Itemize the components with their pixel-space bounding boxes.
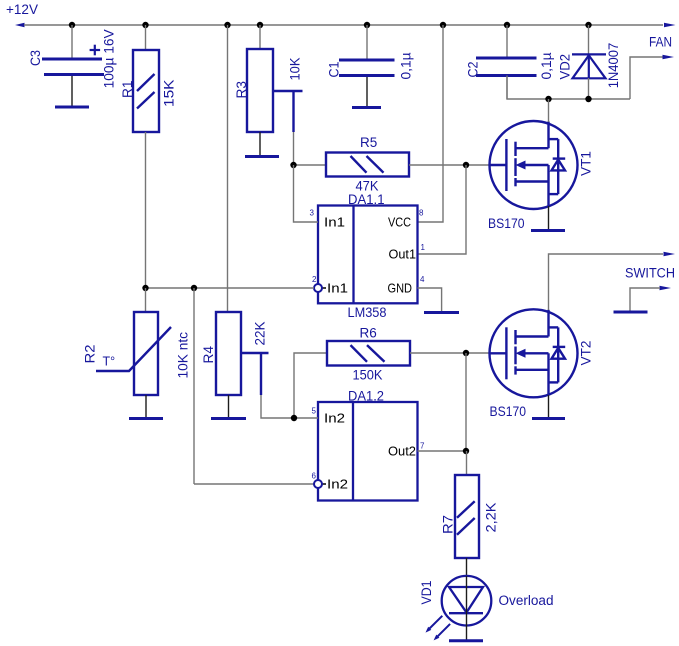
ground SWITCH bbox=[614, 311, 648, 314]
wire R4 feed from rail bbox=[227, 25, 229, 312]
svg-text:15K: 15K bbox=[162, 80, 177, 108]
diode VD2 1N4007 bbox=[572, 54, 606, 78]
node gate VT2 bbox=[463, 350, 469, 356]
ground C1 bbox=[352, 106, 381, 109]
wire C1 top lead bbox=[366, 25, 368, 59]
svg-text:100µ 16V: 100µ 16V bbox=[102, 29, 117, 88]
wire R4 tap to pin5 node bbox=[261, 395, 294, 418]
wire VT1 drain lead bbox=[548, 99, 550, 122]
svg-text:5: 5 bbox=[312, 407, 317, 416]
node pin5 bbox=[291, 415, 297, 421]
capacitor C1 0,1µ bbox=[339, 60, 395, 76]
VT1 arrow bbox=[516, 161, 526, 170]
node rail-VD2 bbox=[585, 22, 591, 28]
svg-text:In1: In1 bbox=[324, 216, 345, 230]
ground VT2 bbox=[532, 417, 565, 420]
node VD2 bottom bbox=[585, 96, 591, 102]
wire gate node to Out2 bbox=[465, 353, 467, 451]
node Out2 bbox=[463, 448, 469, 454]
svg-text:R1: R1 bbox=[120, 81, 135, 99]
wire VD2 top lead bbox=[588, 25, 590, 54]
wire R3 tap down bbox=[293, 132, 295, 165]
svg-text:In2: In2 bbox=[324, 412, 345, 426]
svg-text:150K: 150K bbox=[353, 368, 383, 383]
svg-text:R6: R6 bbox=[360, 326, 377, 341]
wire R2 bottom lead bbox=[145, 395, 147, 417]
svg-text:R5: R5 bbox=[360, 135, 377, 150]
svg-text:Overload: Overload bbox=[499, 593, 554, 608]
svg-text:LM358: LM358 bbox=[348, 305, 387, 320]
node rail-R1 bbox=[142, 22, 148, 28]
transistor VT2 BS170 bbox=[490, 309, 578, 397]
svg-text:1: 1 bbox=[421, 243, 426, 252]
wire R1 bottom to node bbox=[145, 132, 147, 288]
capacitor C2 0,1µ bbox=[476, 58, 537, 76]
svg-text:Out2: Out2 bbox=[388, 445, 416, 459]
ground VD1 bbox=[449, 639, 483, 642]
trimmer R4 22K bbox=[216, 312, 269, 395]
wire VT2 source lead bbox=[548, 395, 550, 417]
node rail-VCCfeed bbox=[440, 22, 446, 28]
ground R3 bbox=[245, 155, 279, 158]
svg-text:8: 8 bbox=[419, 209, 424, 218]
node R1-R2 bbox=[142, 285, 148, 291]
wire R7 top lead bbox=[466, 451, 468, 475]
wire C3 bottom lead bbox=[71, 76, 73, 106]
svg-text:0,1µ: 0,1µ bbox=[539, 52, 554, 79]
node rail-C2 bbox=[504, 22, 510, 28]
wire C1 bottom lead bbox=[366, 77, 368, 106]
svg-text:Out1: Out1 bbox=[389, 248, 417, 262]
+12V rail arrow bbox=[15, 23, 25, 28]
ground R2 bbox=[129, 417, 163, 420]
wire R6 right to gate bbox=[410, 352, 490, 354]
svg-text:2,2K: 2,2K bbox=[484, 503, 499, 533]
node rail-R4feed bbox=[224, 22, 230, 28]
wire C2 top lead bbox=[506, 25, 508, 57]
svg-text:VD1: VD1 bbox=[419, 581, 434, 605]
svg-text:GND: GND bbox=[388, 282, 413, 296]
wire VCC feed bbox=[418, 25, 444, 222]
node rail-R3 bbox=[257, 22, 263, 28]
ground DA1.1 bbox=[424, 311, 459, 314]
svg-text:4: 4 bbox=[420, 275, 425, 284]
svg-text:0,1µ: 0,1µ bbox=[399, 52, 414, 79]
transistor VT1 BS170 bbox=[490, 121, 578, 209]
svg-text:10K: 10K bbox=[288, 58, 303, 81]
SWITCH lower arrow bbox=[660, 286, 672, 290]
resistor R1 15K bbox=[133, 50, 159, 132]
wire C3 top lead bbox=[71, 25, 73, 58]
wire R3 top lead bbox=[259, 25, 261, 49]
svg-text:R4: R4 bbox=[201, 346, 216, 364]
wire R2 top lead bbox=[145, 288, 147, 312]
wire C2 bottom lead bbox=[506, 77, 508, 99]
svg-text:BS170: BS170 bbox=[490, 404, 527, 419]
wire R5 left bbox=[294, 164, 327, 166]
svg-text:6: 6 bbox=[312, 472, 317, 481]
wire VD1 bottom lead bbox=[466, 626, 468, 640]
thermistor R2 10K ntc bbox=[96, 312, 171, 395]
svg-text:C2: C2 bbox=[466, 62, 481, 78]
svg-text:2: 2 bbox=[312, 275, 317, 284]
svg-text:R7: R7 bbox=[441, 515, 456, 534]
svg-text:R3: R3 bbox=[234, 81, 249, 99]
wire inverting node bbox=[146, 287, 315, 289]
svg-text:R2: R2 bbox=[83, 345, 98, 364]
wire R5 right to gate bbox=[409, 164, 490, 166]
LED VD1 bbox=[442, 576, 492, 626]
svg-text:T°: T° bbox=[103, 355, 116, 369]
svg-text:VD2: VD2 bbox=[558, 54, 573, 80]
resistor R5 47K bbox=[326, 153, 409, 177]
svg-text:BS170: BS170 bbox=[488, 216, 525, 231]
svg-text:22K: 22K bbox=[253, 322, 268, 346]
svg-text:10K ntc: 10K ntc bbox=[176, 332, 191, 379]
wire gate node to Out1 bbox=[418, 165, 467, 254]
SWITCH upper arrow bbox=[664, 252, 676, 256]
LED arrows bbox=[428, 616, 451, 639]
svg-text:1N4007: 1N4007 bbox=[606, 43, 621, 89]
wire VD2 bottom lead bbox=[588, 78, 590, 99]
ground C3 bbox=[55, 106, 89, 109]
svg-text:SWITCH: SWITCH bbox=[625, 265, 675, 280]
svg-text:7: 7 bbox=[420, 442, 425, 451]
node R5 left bbox=[290, 162, 296, 168]
svg-text:VT1: VT1 bbox=[579, 151, 594, 176]
wire switch lower to ground bbox=[630, 288, 660, 311]
node to In2 bbox=[191, 285, 197, 291]
trimmer R3 10K bbox=[247, 49, 303, 132]
wire R4 bottom lead bbox=[228, 395, 230, 417]
capacitor C3 bbox=[42, 59, 104, 75]
svg-text:+12V: +12V bbox=[6, 2, 38, 17]
svg-text:FAN: FAN bbox=[649, 35, 672, 50]
FAN lower arrow bbox=[663, 55, 675, 59]
svg-text:C3: C3 bbox=[28, 50, 43, 66]
wire R1 top lead bbox=[145, 25, 147, 50]
svg-text:In1: In1 bbox=[327, 282, 348, 296]
wire top rail bbox=[24, 24, 663, 26]
VT2 arrow bbox=[516, 349, 526, 358]
node rail-C3 bbox=[69, 22, 75, 28]
FAN upper arrow bbox=[664, 23, 676, 27]
node gate VT1 bbox=[463, 162, 469, 168]
wire down to pin 6 bbox=[193, 288, 195, 484]
resistor R6 150K bbox=[327, 341, 410, 366]
svg-text:In2: In2 bbox=[327, 478, 348, 492]
wire R3 bottom lead bbox=[259, 132, 261, 155]
node rail-C1 bbox=[364, 22, 370, 28]
svg-text:3: 3 bbox=[310, 209, 315, 218]
wire fan return bbox=[507, 76, 630, 100]
svg-text:VCC: VCC bbox=[388, 216, 411, 230]
ground VT1 bbox=[531, 229, 565, 232]
wire VT1 source lead bbox=[548, 206, 550, 229]
resistor R7 2,2K bbox=[455, 475, 479, 558]
node VT1 drain bbox=[545, 96, 551, 102]
svg-text:VT2: VT2 bbox=[579, 341, 594, 366]
wire R6 left bbox=[294, 353, 327, 418]
wire VT2 drain to switch bbox=[549, 254, 664, 310]
wire R7 bottom lead bbox=[466, 558, 468, 576]
svg-text:C1: C1 bbox=[327, 62, 342, 78]
ground R4 bbox=[211, 417, 246, 420]
